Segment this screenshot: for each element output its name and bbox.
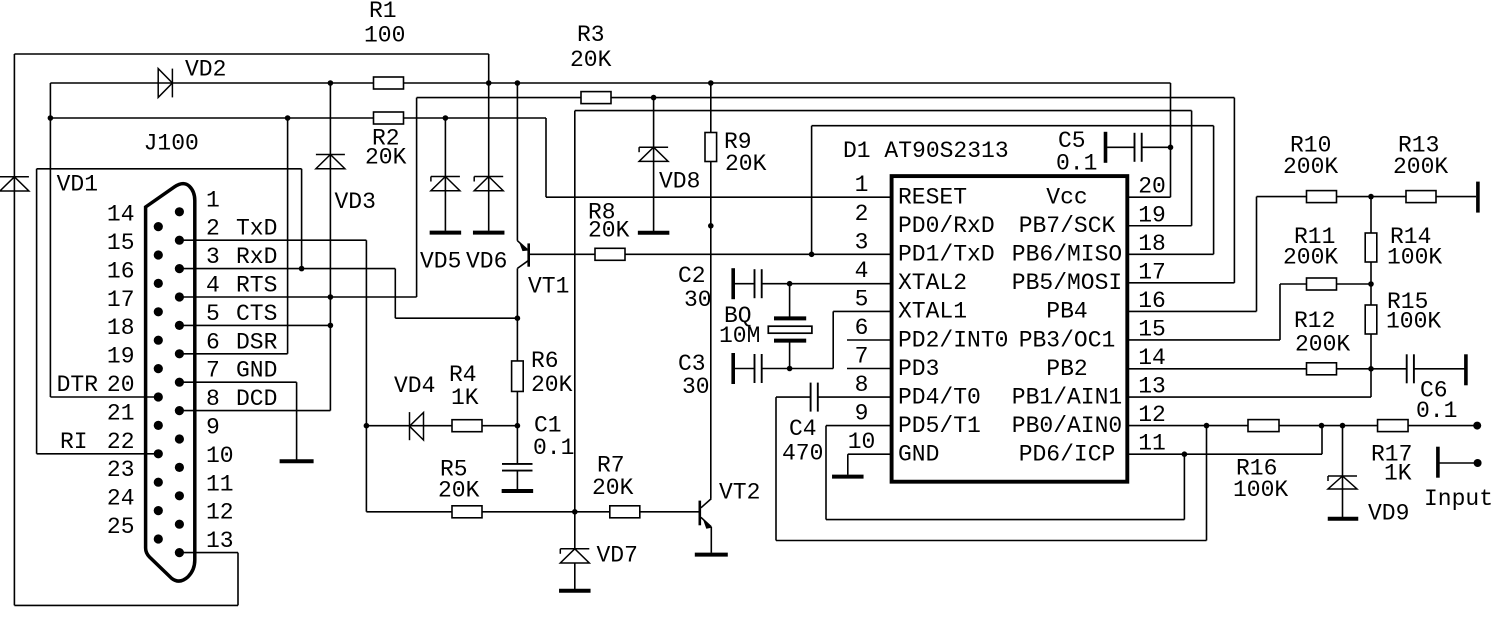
wire Vcc stub <box>1127 196 1171 198</box>
wire C4 left <box>776 396 811 398</box>
junction <box>1368 281 1374 287</box>
svg-text:PB0/AIN0: PB0/AIN0 <box>1012 413 1122 439</box>
wire ICP riser <box>1321 426 1323 455</box>
wire DCD <box>179 410 330 412</box>
J100 pin 1 <box>175 207 184 216</box>
svg-text:30: 30 <box>684 287 712 313</box>
wire pin13 riser <box>237 553 239 606</box>
svg-text:5: 5 <box>206 301 220 327</box>
svg-text:200K: 200K <box>1393 154 1448 180</box>
svg-text:RxD: RxD <box>236 244 277 270</box>
svg-text:VD8: VD8 <box>659 169 700 195</box>
svg-text:DTR: DTR <box>57 372 99 398</box>
wire PD4 <box>818 396 891 398</box>
wire RxD drop <box>394 269 396 319</box>
resistor R17 <box>1378 420 1409 432</box>
terminal C3 <box>731 353 735 384</box>
svg-text:6: 6 <box>206 329 220 355</box>
svg-text:470: 470 <box>782 441 823 467</box>
junction <box>515 315 521 321</box>
junction <box>285 115 291 121</box>
wire PB1 riser <box>1370 369 1372 397</box>
J100 pin 24 <box>154 506 163 515</box>
wire PB0 row <box>1127 425 1477 427</box>
J100 pin 13 <box>175 548 184 557</box>
resistor R14 <box>1365 233 1377 262</box>
svg-text:20K: 20K <box>592 475 634 501</box>
junction <box>1340 423 1346 429</box>
svg-text:15: 15 <box>107 230 135 256</box>
wire VD7 to gnd <box>574 563 576 589</box>
junction <box>515 80 521 86</box>
wire Vcc drop <box>1170 83 1172 197</box>
resistor R2 <box>374 112 404 124</box>
wire MISO riser <box>1213 126 1215 255</box>
capacitor C3 plates <box>755 354 762 383</box>
svg-text:15: 15 <box>1138 316 1166 342</box>
resistor R10 <box>1307 191 1337 203</box>
wire PB3 stub <box>1127 339 1280 341</box>
junction <box>809 252 815 258</box>
svg-text:9: 9 <box>206 415 220 441</box>
wire RxD riser <box>301 169 303 269</box>
wire PB4 stub <box>1127 310 1257 312</box>
svg-text:1K: 1K <box>451 385 479 411</box>
svg-text:20K: 20K <box>531 372 573 398</box>
svg-text:14: 14 <box>107 202 135 228</box>
svg-text:VD2: VD2 <box>185 57 226 83</box>
wire R2 rail <box>50 117 546 119</box>
wire XTAL2 <box>762 283 891 285</box>
ground C1 <box>502 489 534 493</box>
svg-text:14: 14 <box>1138 345 1166 371</box>
svg-text:100: 100 <box>364 23 405 49</box>
wire PD2 stub <box>847 339 891 341</box>
wire ICP row <box>1127 453 1322 455</box>
J100 pin 14 <box>154 222 163 231</box>
wire frame left <box>13 54 15 605</box>
svg-text:D1 AT90S2313: D1 AT90S2313 <box>843 138 1009 164</box>
J100 pin 8 <box>175 406 184 415</box>
svg-text:12: 12 <box>206 500 234 526</box>
svg-text:XTAL1: XTAL1 <box>898 299 967 325</box>
svg-text:13: 13 <box>1138 374 1166 400</box>
diode VD2 <box>158 69 172 98</box>
diode VD8 <box>639 147 668 161</box>
wire C2 left <box>735 283 755 285</box>
J100 pin 10 <box>175 463 184 472</box>
capacitor C2 plates <box>755 269 762 298</box>
svg-text:C2: C2 <box>678 263 706 289</box>
svg-text:VD3: VD3 <box>335 189 376 215</box>
wire bottom rail <box>14 604 238 606</box>
wire BQ bottom <box>789 341 791 369</box>
wire VD6 branch <box>488 54 490 231</box>
svg-text:3: 3 <box>206 244 220 270</box>
ground VT2 <box>695 553 728 557</box>
wire R14 bottom <box>1370 262 1372 305</box>
ground VD9 <box>1328 517 1359 521</box>
wire RxD <box>179 268 395 270</box>
svg-text:4: 4 <box>206 273 220 299</box>
wire RESET drop <box>545 118 547 197</box>
resistor R4 <box>452 420 482 432</box>
svg-text:19: 19 <box>107 344 135 370</box>
junction <box>443 115 449 121</box>
svg-text:TxD: TxD <box>236 216 277 242</box>
svg-text:9: 9 <box>855 401 869 427</box>
ground D1 <box>832 475 864 479</box>
svg-text:RTS: RTS <box>236 273 277 299</box>
transistor VT2 <box>700 499 712 529</box>
wire R9 top <box>710 83 712 133</box>
junction <box>1182 451 1188 457</box>
crystal BQ <box>768 318 812 340</box>
wire R15 bottom <box>1370 334 1372 369</box>
wire C6 left <box>1371 368 1406 370</box>
terminal Input <box>1436 447 1440 478</box>
wire PD1 R8 row <box>530 253 891 255</box>
J100 pin 18 <box>154 336 163 345</box>
connector J100 shell <box>146 184 195 581</box>
svg-text:5: 5 <box>855 286 869 312</box>
svg-text:VD6: VD6 <box>466 249 507 275</box>
svg-text:VD7: VD7 <box>597 543 638 569</box>
wire J100 left <box>36 169 38 454</box>
wire R6 to C1 <box>516 392 518 464</box>
J100 pin 17 <box>154 307 163 316</box>
svg-text:RESET: RESET <box>898 185 967 211</box>
junction <box>1368 194 1374 200</box>
diode VD6 <box>474 177 503 191</box>
ground VD5 <box>430 231 462 235</box>
svg-text:200K: 200K <box>1283 245 1338 271</box>
wire PD5 <box>826 425 891 427</box>
junction <box>48 115 54 121</box>
svg-text:PD4/T0: PD4/T0 <box>898 384 981 410</box>
J100 pin 20 <box>154 392 163 401</box>
J100 pin 22 <box>154 449 163 458</box>
J100 pin 11 <box>175 491 184 500</box>
ground VD7 <box>559 589 591 593</box>
svg-text:J100: J100 <box>144 131 199 157</box>
wire TxD drop <box>365 240 367 512</box>
wire C1 to gnd <box>516 471 518 490</box>
junction <box>787 281 793 287</box>
wire VT2 emitter <box>710 527 712 553</box>
wire PB7 rail <box>575 110 1192 112</box>
wire top rail <box>14 53 488 55</box>
svg-text:VD4: VD4 <box>394 373 435 399</box>
svg-text:200K: 200K <box>1283 154 1338 180</box>
svg-text:4: 4 <box>855 258 869 284</box>
wire J100 pin13 <box>179 552 238 554</box>
J100 pin 5 <box>175 321 184 330</box>
J100 pin 7 <box>175 378 184 387</box>
wire VD9 branch <box>1342 426 1344 517</box>
svg-text:13: 13 <box>206 528 234 554</box>
wire GND10 <box>848 453 891 455</box>
svg-text:20: 20 <box>107 372 135 398</box>
wire PB2 row <box>1127 368 1371 370</box>
junction <box>1368 366 1374 372</box>
transistor VT1 <box>517 241 528 269</box>
resistor R13 <box>1406 191 1436 203</box>
svg-text:Input: Input <box>1424 486 1493 512</box>
svg-text:R1: R1 <box>369 0 397 24</box>
resistor R1 <box>374 77 404 89</box>
svg-text:PD1/TxD: PD1/TxD <box>898 242 995 268</box>
wire MISO rail <box>812 125 1214 127</box>
wire R10 row <box>1257 196 1477 198</box>
svg-text:200K: 200K <box>1295 332 1350 358</box>
svg-text:PD3: PD3 <box>898 356 939 382</box>
wire PD3 stub <box>847 368 891 370</box>
ground J100 <box>280 459 314 463</box>
wire PB1 row <box>1127 396 1371 398</box>
wire VT1 emitter <box>516 83 518 241</box>
wire C5 right <box>1142 146 1171 148</box>
junction <box>299 266 305 272</box>
wire MOSI riser <box>1233 98 1235 283</box>
svg-text:11: 11 <box>1138 431 1166 457</box>
svg-text:20: 20 <box>1138 174 1166 200</box>
capacitor C5 plates <box>1135 133 1142 162</box>
resistor R5 <box>452 506 482 518</box>
svg-text:20K: 20K <box>725 151 767 177</box>
svg-text:1: 1 <box>855 172 869 198</box>
svg-text:24: 24 <box>107 486 135 512</box>
svg-text:0.1: 0.1 <box>1416 398 1457 424</box>
svg-text:100K: 100K <box>1233 477 1288 503</box>
diode VD4 <box>410 412 424 440</box>
J100 pin 19 <box>154 364 163 373</box>
wire GND7 <box>179 381 296 383</box>
resistor R16 <box>1248 420 1279 432</box>
junction <box>1204 423 1210 429</box>
svg-text:10M: 10M <box>719 323 760 349</box>
svg-text:Vcc: Vcc <box>1046 185 1087 211</box>
J100 pin 4 <box>175 292 184 301</box>
svg-text:PB3/OC1: PB3/OC1 <box>1019 327 1116 353</box>
wire ICP drop <box>1183 454 1185 519</box>
junction <box>515 423 521 429</box>
wire C6 right <box>1414 368 1465 370</box>
wire PB4 riser <box>1256 197 1258 312</box>
svg-text:GND: GND <box>898 441 939 467</box>
capacitor C4 plates <box>811 383 818 412</box>
svg-text:11: 11 <box>206 471 234 497</box>
svg-text:CTS: CTS <box>236 301 277 327</box>
svg-text:30: 30 <box>682 374 710 400</box>
wire VT1 collector <box>516 268 518 361</box>
wire VD5 branch <box>444 118 446 231</box>
svg-text:PD2/INT0: PD2/INT0 <box>898 327 1008 353</box>
resistor R11 <box>1307 278 1337 290</box>
svg-text:PB1/AIN1: PB1/AIN1 <box>1012 384 1122 410</box>
svg-text:DSR: DSR <box>236 329 278 355</box>
wire C3 right <box>762 368 834 370</box>
IC D1 AT90S2313 <box>892 176 1128 482</box>
svg-text:21: 21 <box>107 400 135 426</box>
svg-text:PB2: PB2 <box>1046 356 1087 382</box>
wire DTR riser <box>49 83 51 397</box>
terminal R13 <box>1476 182 1480 213</box>
wire PB3 riser <box>1279 284 1281 340</box>
svg-text:3: 3 <box>855 229 869 255</box>
wire XTAL1 <box>833 310 891 312</box>
ground VD6 <box>473 231 505 235</box>
svg-text:20K: 20K <box>570 47 612 73</box>
J100 pin 15 <box>154 250 163 259</box>
terminal output <box>1473 422 1481 430</box>
wire VD4 row <box>366 425 517 427</box>
terminal C5 <box>1104 132 1108 163</box>
svg-text:20K: 20K <box>438 478 480 504</box>
diode VD1 <box>0 177 29 191</box>
wire RTS <box>179 296 416 298</box>
wire MISO stub <box>1127 253 1214 255</box>
J100 pin 23 <box>154 478 163 487</box>
svg-text:100K: 100K <box>1386 309 1441 335</box>
svg-text:C4: C4 <box>789 416 817 442</box>
resistor R15 <box>1365 305 1377 334</box>
wire C5 left <box>1107 146 1134 148</box>
svg-text:VT1: VT1 <box>528 274 569 300</box>
svg-text:R6: R6 <box>531 348 559 374</box>
svg-text:R3: R3 <box>577 22 605 48</box>
svg-text:16: 16 <box>1138 288 1166 314</box>
svg-text:VD9: VD9 <box>1368 501 1409 527</box>
J100 pin 16 <box>154 279 163 288</box>
svg-text:25: 25 <box>107 514 135 540</box>
wire DSR <box>179 353 287 355</box>
svg-text:7: 7 <box>206 358 220 384</box>
svg-text:2: 2 <box>855 201 869 227</box>
wire VD8 branch <box>653 98 655 231</box>
svg-text:23: 23 <box>107 457 135 483</box>
wire C4 rail <box>776 540 1207 542</box>
wire GND7 drop <box>296 382 298 459</box>
J100 pin 3 <box>175 264 184 273</box>
svg-text:10: 10 <box>848 429 876 455</box>
terminal C2 <box>731 268 735 299</box>
svg-text:100K: 100K <box>1387 245 1442 271</box>
svg-text:VD5: VD5 <box>420 249 461 275</box>
wire RI <box>37 453 159 455</box>
diode VD5 <box>431 177 460 191</box>
wire C3 left <box>735 368 755 370</box>
svg-text:R12: R12 <box>1294 308 1335 334</box>
svg-text:20K: 20K <box>588 218 630 244</box>
wire GND10 drop <box>847 454 849 475</box>
svg-text:0.1: 0.1 <box>1056 151 1097 177</box>
svg-text:PB6/MISO: PB6/MISO <box>1012 242 1122 268</box>
resistor R3 <box>581 92 611 104</box>
wire SCK riser <box>1191 111 1193 226</box>
wire PD5 rail <box>826 519 1184 521</box>
junction <box>328 80 334 86</box>
svg-text:PD6/ICP: PD6/ICP <box>1019 441 1116 467</box>
svg-text:VD1: VD1 <box>57 172 98 198</box>
wire DSR riser <box>287 118 289 354</box>
wire SCK stub <box>1127 225 1192 227</box>
svg-text:16: 16 <box>107 258 135 284</box>
svg-text:8: 8 <box>206 386 220 412</box>
junction <box>651 95 657 101</box>
resistor R9 <box>705 133 717 162</box>
wire RESET <box>546 196 891 198</box>
junction <box>708 223 714 229</box>
junction <box>1168 145 1174 151</box>
svg-text:10: 10 <box>206 443 234 469</box>
svg-text:22: 22 <box>107 429 135 455</box>
wire PB0 drop <box>1206 426 1208 541</box>
terminal input dot <box>1474 459 1482 467</box>
capacitor C1 <box>502 464 533 471</box>
svg-text:18: 18 <box>1138 231 1166 257</box>
svg-text:0.1: 0.1 <box>533 435 574 461</box>
ground VD8 <box>638 231 670 235</box>
wire TxD <box>179 239 366 241</box>
J100 pin 6 <box>175 349 184 358</box>
J100 pin 2 <box>175 236 184 245</box>
junction <box>708 80 714 86</box>
svg-text:1K: 1K <box>1384 461 1412 487</box>
svg-text:RI: RI <box>60 429 88 455</box>
svg-text:GND: GND <box>236 358 277 384</box>
junction <box>486 80 492 86</box>
svg-text:6: 6 <box>855 315 869 341</box>
wire PB7 drop <box>574 111 576 549</box>
wire R3 rail <box>417 97 1235 99</box>
wire R11 row <box>1280 283 1371 285</box>
svg-text:17: 17 <box>1138 259 1166 285</box>
svg-text:VT2: VT2 <box>719 480 760 506</box>
wire R5 row <box>366 511 699 513</box>
terminal C6 <box>1464 354 1468 385</box>
J100 pin 12 <box>175 520 184 529</box>
wire BQ top <box>789 284 791 319</box>
diode VD3 <box>316 155 345 169</box>
diode VD9 <box>1328 476 1357 489</box>
svg-text:17: 17 <box>107 287 135 313</box>
svg-text:PB5/MOSI: PB5/MOSI <box>1012 270 1122 296</box>
J100 pin 25 <box>154 534 163 543</box>
svg-text:12: 12 <box>1138 402 1166 428</box>
resistor R6 <box>512 361 524 392</box>
svg-text:7: 7 <box>855 344 869 370</box>
wire Vcc rail <box>50 82 1170 84</box>
svg-text:PB4: PB4 <box>1046 299 1087 325</box>
resistor R12 <box>1307 363 1337 375</box>
svg-text:DCD: DCD <box>236 386 277 412</box>
wire VD3 branch <box>329 83 331 411</box>
resistor R7 <box>610 506 640 518</box>
junction <box>787 366 793 372</box>
wire PD0 net <box>710 161 712 499</box>
svg-text:XTAL2: XTAL2 <box>898 270 967 296</box>
svg-text:18: 18 <box>107 315 135 341</box>
wire C4 drop <box>775 397 777 540</box>
svg-text:2: 2 <box>206 216 220 242</box>
junction <box>572 509 578 515</box>
svg-text:8: 8 <box>855 372 869 398</box>
junction <box>328 294 334 300</box>
wire RxD to VT1 <box>395 317 517 319</box>
J100 pin 21 <box>154 421 163 430</box>
wire CTS <box>179 324 330 326</box>
